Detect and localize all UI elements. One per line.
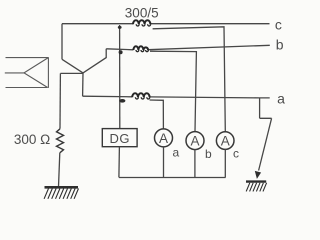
svg-text:A: A [159,131,168,146]
svg-text:c: c [233,146,239,160]
svg-text:A: A [221,134,230,149]
svg-text:b: b [205,147,212,161]
source arrow symbol (three-phase feed) [5,57,49,88]
wire: c-phase left riser [61,24,63,60]
wire: neutral horizontal to junction [60,72,83,74]
wire: junction down to a-phase [82,73,84,96]
ammeter Aa [155,129,173,147]
wire: c branch to ammeter Ac [153,27,226,132]
wire: c-phase main line [62,23,270,25]
svg-text:a: a [277,90,285,106]
resistor R 300 ohm [57,129,64,153]
wire: a branch to ammeter Aa [150,100,164,129]
ground (fault point) [246,182,267,192]
CT coil c (300/5) [133,20,150,24]
wire: neutral down to resistor [59,73,61,128]
ammeter Ac [216,132,234,150]
wire: a-phase drop to fault [260,98,272,118]
wire: Aa to bus [163,147,165,178]
wire: a-phase main line [83,96,270,98]
DG device box [102,129,137,147]
svg-text:300/5: 300/5 [125,6,159,21]
CT coil b [133,46,148,50]
svg-text:A: A [190,134,199,149]
svg-text:c: c [275,16,282,32]
wire: b-phase main line [106,45,270,50]
CT coil a [132,93,149,97]
wire: resistor to ground [59,153,60,187]
wire: b branch to ammeter Ab [150,51,196,131]
wire: Ac to bus [224,149,226,177]
svg-text:300 Ω: 300 Ω [14,132,50,147]
ground (neutral earthing) [44,187,78,199]
ammeter Ab [186,132,204,150]
wire: DG to bus [118,147,121,178]
node dot a [119,99,125,103]
svg-text:DG: DG [109,131,130,146]
node dot b [119,50,123,54]
wire: bottom bus [119,177,226,179]
wire: Ab to bus [194,150,196,178]
wire: slant from c riser to junction [62,59,83,73]
fault arrow to ground [259,118,272,170]
node dot c [118,26,122,29]
wire: slant junction to b-phase elbow [83,49,106,73]
svg-text:b: b [276,37,284,53]
svg-text:a: a [172,146,179,160]
wire: common riser c-row to DG [119,25,121,129]
